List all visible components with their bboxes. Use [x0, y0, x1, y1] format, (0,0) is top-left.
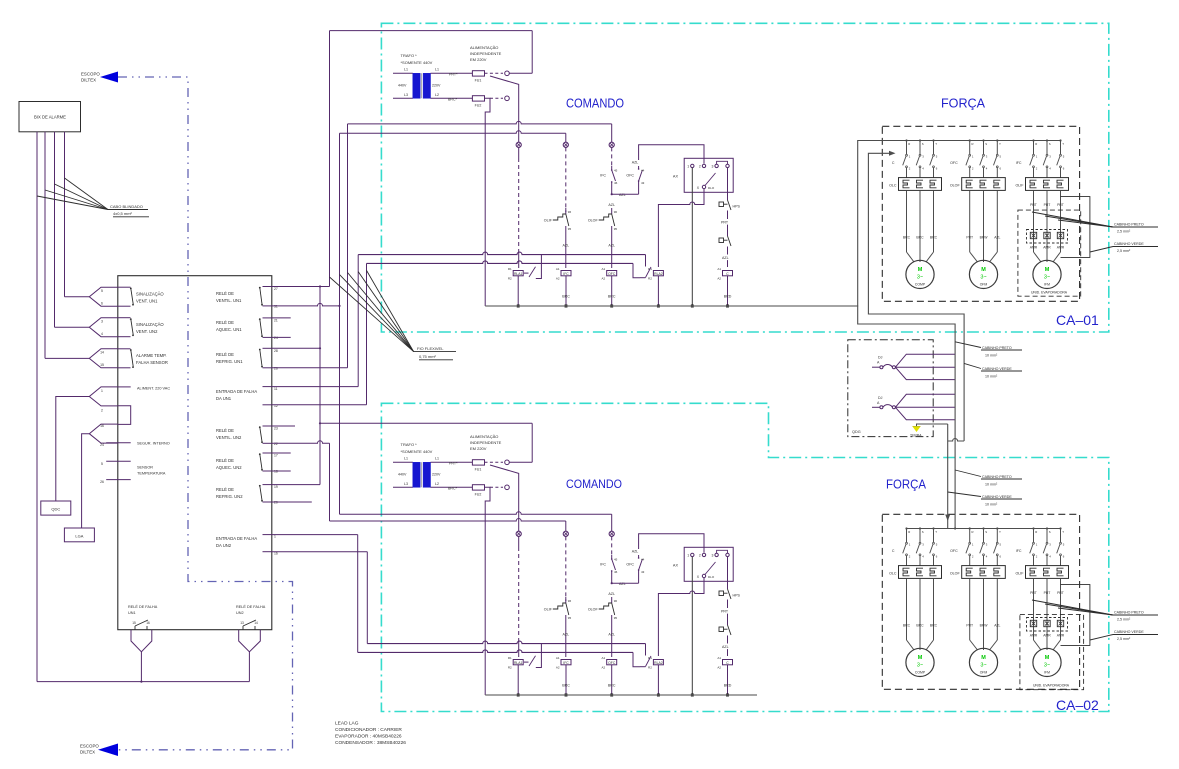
svg-text:3~: 3~ [917, 663, 923, 669]
leader underline fio gauge [419, 359, 453, 361]
svg-text:17: 17 [274, 454, 278, 458]
wire lamp1 down dashed comando2 [518, 547, 520, 641]
overload relay OLOF forca2 [962, 566, 1006, 579]
svg-text:TEMPERATURA: TEMPERATURA [137, 472, 166, 476]
pressure switch HPS comando2 [719, 591, 724, 596]
svg-text:SINALIZAÇÃO: SINALIZAÇÃO [136, 322, 164, 327]
connector funnel output falha un2 [239, 630, 261, 652]
svg-text:C: C [892, 549, 895, 553]
wire stub 18 [272, 470, 291, 472]
svg-text:SEGUR. INTERNO: SEGUR. INTERNO [137, 442, 170, 446]
svg-text:A2: A2 [556, 666, 560, 670]
svg-text:FU1: FU1 [475, 468, 482, 472]
svg-text:0,75 mm²: 0,75 mm² [419, 354, 437, 359]
wire aliment stub [118, 386, 131, 388]
svg-text:COMP: COMP [915, 283, 926, 287]
wire fu2 return comando2 [485, 487, 491, 695]
svg-text:T: T [935, 530, 937, 534]
wire corridor v2b [329, 443, 331, 521]
svg-text:AZL: AZL [563, 244, 570, 248]
wire bix-3 to funnel2 [55, 326, 90, 328]
svg-text:L3: L3 [404, 93, 408, 97]
svg-text:AZL: AZL [608, 592, 615, 596]
svg-text:FIO FLEXIVEL: FIO FLEXIVEL [417, 346, 444, 351]
panel border CA-01 (cyan dash-dot) [381, 23, 1108, 332]
svg-text:24: 24 [100, 443, 104, 447]
svg-text:FU1: FU1 [475, 79, 482, 83]
terminal circle 2 comando1 [505, 71, 510, 76]
svg-text:RLA1: RLA1 [514, 661, 523, 665]
relay AX contact blade comando2 [705, 562, 716, 575]
connector funnel input segur [89, 424, 118, 443]
svg-text:TRAFO *: TRAFO * [401, 53, 418, 58]
svg-text:BIX DE ALARME: BIX DE ALARME [34, 115, 66, 120]
circuit breaker DJ DJ1 [872, 366, 880, 368]
contactor coil RLA2 comando1 [653, 271, 663, 276]
leader cabinho preto 10mm lower [955, 470, 981, 477]
pressure switch HPS comando1 [719, 202, 724, 207]
svg-text:QDC: QDC [51, 507, 60, 512]
svg-text:EM 220V: EM 220V [470, 57, 487, 62]
svg-text:3~: 3~ [980, 275, 986, 281]
svg-text:EVAPORADOR : 40MSB40226: EVAPORADOR : 40MSB40226 [335, 734, 402, 740]
contactor coil RLA2 comando2 [653, 660, 663, 665]
svg-text:OFC: OFC [950, 549, 958, 553]
svg-text:CABINHO PRETO: CABINHO PRETO [982, 475, 1012, 479]
svg-text:45: 45 [614, 558, 618, 562]
svg-text:L1: L1 [404, 457, 408, 461]
wire rele refrig un1 top (28) [272, 347, 320, 349]
svg-text:HPS: HPS [733, 205, 741, 209]
svg-text:440V: 440V [398, 473, 407, 477]
overload relay OLC forca1 [899, 178, 942, 191]
lamp L1 comando2 [516, 531, 521, 536]
svg-text:BRC: BRC [903, 624, 911, 628]
svg-text:A1: A1 [556, 267, 560, 271]
svg-text:13: 13 [240, 621, 244, 625]
wire lamp2 drop comando2 [565, 521, 567, 531]
svg-text:6: 6 [101, 302, 103, 306]
svg-text:4x0,5 mm²: 4x0,5 mm² [113, 211, 133, 216]
svg-text:T: T [999, 530, 1001, 534]
svg-text:OFC: OFC [950, 161, 958, 165]
wire corridor v3 [339, 133, 341, 514]
svg-text:VENT. UN2: VENT. UN2 [136, 329, 158, 334]
svg-text:BRD: BRD [724, 295, 732, 299]
svg-text:VENTIL. UN2: VENTIL. UN2 [216, 435, 242, 440]
svg-text:23: 23 [274, 427, 278, 431]
leader cabo blindado fan [37, 196, 108, 210]
lamp L3 comando2 [609, 531, 614, 536]
svg-text:A1: A1 [717, 267, 721, 271]
overload contact OLIF comando1 [565, 208, 567, 214]
svg-text:AZL: AZL [722, 645, 729, 649]
wire rail comando2 right drop [531, 423, 533, 462]
svg-text:VENT. UN1: VENT. UN1 [136, 299, 158, 304]
svg-text:43: 43 [641, 181, 645, 185]
wires OFC to motor forca2 [969, 578, 971, 640]
svg-text:AZL: AZL [994, 236, 1000, 240]
wire OFC to AX comando1 [639, 145, 704, 164]
svg-text:FORÇA: FORÇA [886, 478, 927, 492]
svg-text:FU2: FU2 [475, 104, 482, 108]
svg-text:AZL: AZL [608, 633, 615, 637]
svg-text:REFRIG. UN2: REFRIG. UN2 [216, 494, 243, 499]
svg-text:BRC: BRC [930, 236, 938, 240]
switch rele falha un2 [242, 626, 244, 630]
leader cabinho verde forca2 [1090, 635, 1113, 641]
wire stub 24 [272, 336, 291, 338]
svg-text:R: R [908, 142, 910, 146]
svg-text:95: 95 [568, 227, 572, 231]
svg-text:15: 15 [132, 621, 136, 625]
svg-text:15: 15 [100, 363, 104, 367]
svg-text:44: 44 [641, 558, 645, 562]
switch rele aquec un2 [263, 452, 272, 454]
leader fio flexivel fan [330, 277, 414, 352]
wire rele ventil un2 bottom (22) with hop [272, 441, 330, 444]
wire bus2 step comando2 [633, 652, 640, 666]
svg-text:1: 1 [101, 389, 103, 393]
svg-text:PRT: PRT [1044, 203, 1051, 207]
svg-text:3: 3 [712, 554, 714, 558]
wire lamp1 down dashed comando1 [518, 158, 520, 252]
wire feed lamp2 comando2 (hop at 518.7) [330, 519, 566, 522]
motor M OFM forca2 [969, 648, 997, 676]
wire AX pin4 down to HPS comando2 [727, 557, 729, 589]
wire rail comando2 top [320, 422, 532, 424]
svg-text:CABINHO PRETO: CABINHO PRETO [982, 346, 1012, 350]
connector funnel 3ph DJ1 [895, 354, 954, 367]
svg-text:AMR: AMR [1057, 634, 1065, 638]
svg-text:AZL: AZL [632, 550, 639, 554]
svg-text:CABINHO VERDE: CABINHO VERDE [982, 495, 1012, 499]
svg-text:ALARME TEMP.: ALARME TEMP. [136, 353, 167, 358]
svg-text:S: S [922, 530, 924, 534]
wire feed lamp3 comando1 (hop at 518.7) [348, 121, 612, 124]
svg-text:RELÉ DE FALHA: RELÉ DE FALHA [236, 604, 266, 609]
svg-text:FALHA SENSOR: FALHA SENSOR [136, 360, 168, 365]
svg-text:3~: 3~ [980, 663, 986, 669]
svg-text:RELÉ DE: RELÉ DE [216, 320, 234, 325]
motor M COMP forca2 [906, 648, 934, 676]
contactor coil RLA1 comando2 [513, 660, 523, 665]
wire lamp2 drop comando1 [565, 133, 567, 142]
motor M IFM forca2 [1033, 648, 1061, 676]
switch OFC comando2 [638, 570, 640, 583]
switch rele refrig un2 [263, 484, 272, 486]
terminal circle 1 comando2 [505, 485, 510, 490]
contactor contacts OFC forca2 [969, 527, 971, 529]
wire rail comando1 right drop [531, 31, 533, 74]
relay AX comando1 [684, 158, 733, 192]
svg-text:BRW: BRW [980, 236, 989, 240]
svg-text:UN1: UN1 [128, 611, 136, 615]
svg-text:IFC: IFC [600, 563, 606, 567]
svg-text:10 mm²: 10 mm² [985, 503, 998, 507]
svg-text:PRT: PRT [966, 236, 973, 240]
wire falha bus bottom [37, 681, 249, 683]
svg-text:SINALIZAÇÃO: SINALIZAÇÃO [136, 292, 164, 297]
svg-text:L2: L2 [435, 93, 439, 97]
svg-text:OLOF: OLOF [588, 608, 599, 612]
svg-text:*SOMENTE 440V: *SOMENTE 440V [401, 449, 433, 454]
wire to OFC comando2 [612, 582, 639, 584]
wire stub 1b inside [263, 534, 272, 536]
lamp L3 comando1 [609, 142, 614, 147]
label azl chain bg comando1 [722, 255, 734, 261]
wire bix-1 (to fault relay bus) [36, 132, 38, 682]
fuse FU2 comando1 [472, 96, 484, 101]
terminal circle 1 comando1 [505, 96, 510, 101]
fuse FU1 comando1 [472, 71, 484, 76]
wire corridor v4 [347, 124, 349, 368]
svg-text:PRT: PRT [1030, 591, 1037, 595]
svg-text:A2: A2 [602, 277, 606, 281]
contactor coil IFC coil comando1 [561, 271, 571, 276]
switch rele falha un1 [134, 626, 136, 630]
wire rail comando1 top [330, 30, 533, 32]
fuse FU1 comando2 [472, 460, 484, 465]
box QDG (dash-dot) [848, 340, 933, 437]
overload relay OLIF forca2 [1026, 566, 1069, 579]
wire QDC to controller funnel4 [56, 397, 90, 502]
terminal strip forca1 [1027, 230, 1068, 244]
svg-text:2,5 mm²: 2,5 mm² [1117, 637, 1131, 641]
svg-text:3~: 3~ [1044, 663, 1050, 669]
svg-text:A2: A2 [717, 277, 721, 281]
svg-text:BRD: BRD [724, 684, 732, 688]
wire stub 12 inside [263, 404, 272, 406]
svg-text:2,5 mm²: 2,5 mm² [1117, 230, 1131, 234]
svg-text:CABO BLINDADO: CABO BLINDADO [110, 204, 143, 209]
svg-text:95: 95 [614, 227, 618, 231]
svg-text:CABINHO PRETO: CABINHO PRETO [1114, 223, 1144, 227]
svg-text:A2: A2 [556, 277, 560, 281]
svg-text:R2: R2 [648, 277, 652, 281]
svg-text:FU2: FU2 [475, 493, 482, 497]
svg-text:AMR: AMR [1030, 634, 1038, 638]
svg-text:CABINHO PRETO: CABINHO PRETO [1114, 611, 1144, 615]
svg-text:PRT: PRT [1057, 591, 1064, 595]
svg-text:M: M [981, 267, 986, 273]
svg-text:R: R [1035, 142, 1037, 146]
svg-text:PRT: PRT [1044, 591, 1051, 595]
svg-text:TERRA: TERRA [910, 434, 922, 438]
svg-text:OFC: OFC [626, 563, 634, 567]
svg-text:BRC*: BRC* [448, 486, 458, 490]
svg-text:DILTEX: DILTEX [81, 78, 96, 83]
overload relay OLIF forca1 [1026, 178, 1069, 191]
wire rele ventil un1 bottom (31) with hop [272, 303, 340, 306]
svg-text:95: 95 [614, 616, 618, 620]
wires IFC to motor forca1 [1033, 190, 1035, 252]
wire bus2 step comando1 [633, 263, 640, 277]
svg-text:RELÉ DE: RELÉ DE [216, 487, 234, 492]
svg-text:220V: 220V [432, 473, 441, 477]
svg-text:5: 5 [101, 289, 103, 293]
connector funnel 3ph DJ2 [895, 394, 954, 407]
svg-text:R1: R1 [508, 267, 512, 271]
wire bus bottom comando2 [485, 694, 757, 696]
svg-text:PRT: PRT [966, 624, 973, 628]
svg-text:3~: 3~ [917, 275, 923, 281]
svg-text:1: 1 [274, 535, 276, 539]
svg-text:CABINHO VERDE: CABINHO VERDE [982, 367, 1012, 371]
switch rele aquec un1 [263, 317, 272, 319]
svg-text:OLC: OLC [889, 184, 897, 188]
leader cabinho verde forca1 [1090, 247, 1113, 253]
wire branch3 to coil comando1 [611, 232, 613, 268]
motor M IFM forca1 [1033, 260, 1061, 288]
contactor coil IFC coil comando2 [561, 660, 571, 665]
arrow escopo bottom [98, 744, 118, 757]
wire bix-2 to funnel3 [45, 357, 89, 359]
wire stub 20 [272, 501, 312, 503]
svg-text:16: 16 [100, 424, 104, 428]
switch rele ventil un2 [263, 425, 272, 427]
wire bix-2 [44, 132, 46, 359]
wire fu2 return comando1 [485, 98, 491, 306]
wire feed A (ca01 bus to ca02) [858, 141, 955, 529]
svg-text:RELÉ DE: RELÉ DE [216, 291, 234, 296]
svg-text:UNID. EVAPORADORA: UNID. EVAPORADORA [1033, 684, 1070, 688]
svg-text:AMR: AMR [1043, 246, 1051, 250]
svg-text:S: S [985, 530, 987, 534]
label azl chain bg comando2 [722, 644, 734, 650]
leader underline cabo gauge [113, 216, 149, 218]
svg-text:M: M [1045, 655, 1050, 661]
wire bix-4 to funnel1 [65, 296, 90, 298]
svg-text:96: 96 [568, 210, 572, 214]
svg-text:INDEPENDENTE: INDEPENDENTE [470, 51, 502, 56]
svg-text:R1: R1 [508, 656, 512, 660]
svg-text:OLIF: OLIF [1016, 572, 1025, 576]
wire lamp3 down dashed comando1 [611, 147, 613, 166]
wire entrada falha un1 (12) [272, 404, 367, 406]
svg-text:14: 14 [254, 621, 258, 625]
wire phase bus forca1 [906, 140, 1060, 142]
svg-text:21: 21 [274, 318, 278, 322]
svg-text:2,5 mm²: 2,5 mm² [1117, 249, 1131, 253]
svg-text:IFC: IFC [563, 272, 569, 276]
svg-text:220V: 220V [432, 84, 441, 88]
motor M OFM forca1 [969, 260, 997, 288]
wires C to motor forca2 [906, 578, 908, 640]
svg-text:27: 27 [274, 287, 278, 291]
svg-text:DJ: DJ [878, 396, 883, 400]
contactor contacts C forca1 [905, 139, 907, 141]
svg-text:S: S [985, 142, 987, 146]
svg-text:11: 11 [274, 387, 278, 391]
svg-text:FORÇA: FORÇA [941, 97, 986, 111]
svg-text:AMR: AMR [1057, 246, 1065, 250]
circuit breaker DJ DJ2 [872, 406, 880, 408]
svg-text:45: 45 [614, 169, 618, 173]
wire lamp2 down dashed comando1 [565, 147, 567, 212]
wire rele refrig un1 bottom (26) [272, 367, 348, 369]
svg-text:OLIF: OLIF [544, 608, 553, 612]
svg-text:CABINHO VERDE: CABINHO VERDE [1114, 242, 1144, 246]
leader cabinho verde 10mm upper [964, 363, 981, 368]
contactor contacts C forca2 [905, 527, 907, 529]
svg-text:2: 2 [101, 409, 103, 413]
svg-text:M: M [1045, 267, 1050, 273]
contactor coil C coil comando1 [723, 271, 733, 276]
svg-text:16: 16 [146, 621, 150, 625]
svg-text:L1: L1 [435, 68, 439, 72]
svg-text:BRC: BRC [930, 624, 938, 628]
svg-text:UNID. EVAPORADORA: UNID. EVAPORADORA [1031, 291, 1068, 295]
wire corridor v5 (bus1 c1 left drop) [357, 255, 359, 387]
svg-text:EM 220V: EM 220V [470, 446, 487, 451]
svg-text:OFC: OFC [608, 272, 616, 276]
svg-text:DJ: DJ [878, 356, 883, 360]
leader underline cabo blindado [108, 209, 148, 211]
svg-text:ALIMENTAÇÃO: ALIMENTAÇÃO [470, 434, 498, 439]
wire bix-4 [64, 132, 66, 297]
svg-text:CA–01: CA–01 [1056, 312, 1099, 328]
svg-text:T: T [999, 142, 1001, 146]
svg-text:BRC: BRC [608, 684, 616, 688]
svg-text:A1: A1 [602, 267, 606, 271]
svg-text:COMANDO: COMANDO [566, 477, 622, 491]
wire feed lamp3 comando2 (hop at 518.7) [340, 512, 612, 515]
svg-text:10 mm²: 10 mm² [985, 354, 998, 358]
wires IFC to motor forca2 [1033, 578, 1035, 640]
wire bus2 comando2 (hops at 485.2, 519.5) [358, 650, 633, 653]
wire bus2 comando1 (hops at 485.2, 519.5) [367, 261, 634, 264]
svg-text:ESCOPO: ESCOPO [80, 744, 99, 749]
svg-text:QDG: QDG [852, 430, 861, 434]
wire lamp2 down dashed comando2 [565, 536, 567, 601]
svg-text:RLA2: RLA2 [654, 272, 663, 276]
connector funnel input alarme temp [89, 349, 118, 368]
overload contact OLOF comando2 [611, 597, 613, 603]
svg-text:OLIF: OLIF [544, 219, 553, 223]
wire LGA to controller funnel5 [82, 434, 90, 528]
svg-text:BRW: BRW [980, 624, 989, 628]
svg-text:AZL: AZL [619, 582, 626, 586]
box QDC [41, 501, 71, 515]
svg-text:AX: AX [673, 564, 679, 568]
svg-text:AZL: AZL [632, 161, 639, 165]
connector funnel output falha un1 [131, 630, 152, 652]
svg-text:INDEPENDENTE: INDEPENDENTE [470, 440, 502, 445]
svg-text:M: M [918, 267, 923, 273]
svg-text:ENTRADA DE FALHA: ENTRADA DE FALHA [216, 536, 257, 541]
relay AX contact link comando1 [717, 161, 728, 164]
svg-text:T: T [935, 142, 937, 146]
svg-text:PRT*: PRT* [449, 461, 458, 465]
contactor coil OFC coil comando2 [607, 660, 617, 665]
wire corridor v8 (bus1 c2 left drop) [366, 552, 368, 644]
svg-text:DA UN2: DA UN2 [216, 543, 232, 548]
svg-text:L3: L3 [404, 482, 408, 486]
overload contact OLOF comando1 [611, 208, 613, 214]
svg-text:43: 43 [641, 570, 645, 574]
svg-text:OFC: OFC [608, 661, 616, 665]
wire branch2 to coil comando2 [565, 621, 567, 657]
wire branch3 to coil comando2 [611, 621, 613, 657]
relay AX comando2 [684, 547, 733, 581]
lamp L2 comando1 [563, 142, 568, 147]
label prt chain bg comando1 [721, 219, 733, 225]
wire feed lamp2 comando1 (hop at 518.7) [340, 131, 566, 134]
svg-text:10 mm²: 10 mm² [985, 375, 998, 379]
wire sensor stub1 [106, 460, 131, 462]
svg-text:IFC: IFC [563, 661, 569, 665]
